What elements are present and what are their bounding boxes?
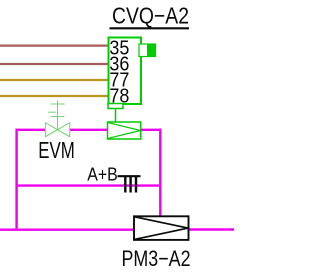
svg-text:CVQ−A2: CVQ−A2 — [112, 2, 189, 28]
connector tab — [139, 44, 156, 57]
ground symbol A+B — [118, 176, 141, 192]
connector bottom pin lead — [115, 109, 117, 123]
svg-text:PM3−A2: PM3−A2 — [122, 246, 191, 271]
wire magenta: right vertical down to PM3 — [159, 129, 161, 217]
connector U1 CVQ-A2 body — [109, 38, 142, 105]
wire magenta: bottom long horizontal — [0, 228, 134, 230]
svg-text:EVM: EVM — [38, 137, 75, 163]
pump PM3-A2 box — [134, 216, 189, 240]
wire magenta: PM3 right side to edge — [189, 228, 235, 230]
valve EVM bowtie — [45, 123, 69, 137]
svg-text:A+B: A+B — [87, 164, 118, 185]
wire magenta: left corner to valve — [16, 129, 46, 131]
valve solenoid actuator — [48, 101, 65, 130]
wire magenta: left vertical — [15, 129, 17, 231]
wire magenta: middle horizontal to ground node — [17, 184, 162, 186]
wire pin 35 — [0, 44, 109, 46]
wire pin 36 — [0, 63, 109, 65]
wire pin 78 — [0, 95, 109, 97]
driver box (green triangle) — [108, 122, 141, 139]
title CVQ-A2 — [110, 2, 190, 28]
wire pin 77 — [0, 79, 109, 81]
wire magenta: valve to driver box — [70, 129, 108, 131]
connector bottom pin housing — [108, 104, 123, 109]
wire magenta: driver box to right vertical — [141, 129, 162, 131]
